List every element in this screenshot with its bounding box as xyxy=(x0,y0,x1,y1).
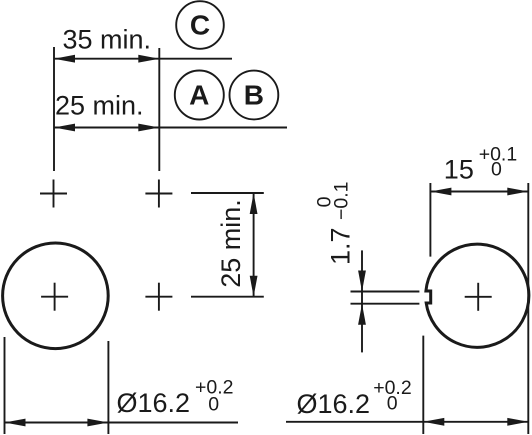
svg-text:0: 0 xyxy=(208,394,219,416)
arrowhead 1.7 down xyxy=(358,271,366,292)
extension line 25 min vertical top xyxy=(191,192,264,194)
arrowhead diameter right xyxy=(87,419,108,427)
dimension line 25 min vertical xyxy=(253,193,255,297)
label 25 min xyxy=(55,91,144,121)
extension line hole diameter right xyxy=(107,341,109,434)
label 25 min vertical xyxy=(216,199,246,288)
mounting hole circle left view xyxy=(3,243,109,349)
svg-text:15: 15 xyxy=(444,155,474,185)
tolerance +0.1 sup xyxy=(479,144,518,166)
label 35 min xyxy=(63,24,152,54)
slot line bottom xyxy=(351,303,420,305)
label diameter 16.2 left xyxy=(117,388,191,418)
arrowhead 15 right xyxy=(507,188,528,196)
arrowhead 25 min vertical top xyxy=(250,193,258,214)
balloon A letter xyxy=(189,80,209,111)
arrowhead 1.7 up xyxy=(358,304,366,325)
center mark cross in hole xyxy=(41,283,68,311)
svg-text:−0.1: −0.1 xyxy=(331,182,353,221)
label 15 xyxy=(444,155,474,185)
arrowhead 25 min left xyxy=(54,124,75,132)
balloon A circle xyxy=(175,71,224,120)
center mark cross bottom-right xyxy=(145,283,172,311)
svg-text:B: B xyxy=(244,80,264,111)
arrowhead 15 left xyxy=(430,188,451,196)
arrowhead right diameter left xyxy=(423,418,444,426)
svg-text:35 min.: 35 min. xyxy=(63,24,152,54)
dimension line 1.7 lower xyxy=(361,304,363,353)
tolerance 0 right sub xyxy=(387,393,398,415)
svg-text:Ø16.2: Ø16.2 xyxy=(297,389,371,419)
center mark cross right view xyxy=(465,283,492,311)
tolerance 0 left sub xyxy=(208,394,219,416)
dimension line right diameter xyxy=(286,421,528,423)
label diameter 16.2 right xyxy=(297,389,371,419)
balloon B letter xyxy=(244,80,264,111)
extension line right datum xyxy=(158,48,160,171)
extension line hole diameter left xyxy=(4,337,6,434)
dimension line hole diameter left view xyxy=(5,422,239,424)
arrowhead 25 min vertical bottom xyxy=(250,276,258,297)
svg-text:0: 0 xyxy=(387,393,398,415)
extension line left datum xyxy=(53,47,55,171)
extension line 25 min vertical bottom xyxy=(191,296,264,298)
balloon C circle xyxy=(176,1,224,49)
svg-text:1.7: 1.7 xyxy=(326,227,356,265)
svg-text:C: C xyxy=(190,10,210,41)
center mark cross top-left xyxy=(40,180,67,208)
extension line 15 left xyxy=(429,183,431,257)
svg-text:A: A xyxy=(189,80,209,111)
slot line top xyxy=(351,291,420,293)
label 1.7 rotated xyxy=(314,182,356,266)
dimension line 1.7 upper xyxy=(361,250,363,303)
dimension line 15 xyxy=(430,191,528,193)
tolerance +0.2 right sup xyxy=(373,377,412,399)
dimension line 25 min xyxy=(54,127,287,129)
extension line right diameter left xyxy=(422,336,424,434)
dimension line 35 min xyxy=(54,58,232,60)
arrowhead 35 min left xyxy=(54,55,75,63)
arrowhead 35 min right xyxy=(138,55,159,63)
key hole circle right view with tab xyxy=(426,244,529,347)
arrowhead 25 min right xyxy=(138,124,159,132)
tolerance 0 sub xyxy=(491,159,502,181)
balloon C letter xyxy=(190,10,210,41)
arrowhead diameter left xyxy=(5,419,26,427)
svg-text:25 min.: 25 min. xyxy=(55,91,144,121)
svg-text:0: 0 xyxy=(491,159,502,181)
balloon B circle xyxy=(230,71,279,120)
center mark cross top-right xyxy=(145,180,172,208)
svg-text:Ø16.2: Ø16.2 xyxy=(117,388,191,418)
extension line 15 and diameter right xyxy=(527,183,529,434)
svg-text:25 min.: 25 min. xyxy=(216,199,246,288)
tolerance +0.2 left sup xyxy=(195,377,234,399)
arrowhead right diameter right xyxy=(507,418,528,426)
